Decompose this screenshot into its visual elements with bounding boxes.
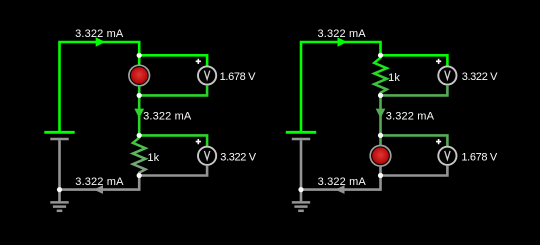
wire voltmeter M4 bottom back to node I (0V net) (381, 165, 448, 175)
wire node I to ground rail (0V net) (301, 176, 381, 190)
node B (LED cathode junction) (137, 93, 142, 98)
resistor R1 (133, 135, 146, 175)
wire from source + up and across top to resistor (5V net) (301, 42, 381, 131)
wire voltmeter M2 bottom back to node D (0V net) (139, 165, 207, 175)
plus sign M2 (196, 139, 201, 144)
ground G1 (50, 190, 68, 211)
node F (resistor top junction) (378, 53, 383, 58)
wire from source + up and across top to LED (5V net) (60, 42, 140, 131)
wire voltmeter M3 bottom back to node G (1.678V net) (381, 85, 448, 95)
wire voltmeter M1 bottom back to node B (3.322V net) (139, 85, 207, 95)
node I (LED cathode junction) (378, 173, 383, 178)
op: voltmeter M2 (198, 147, 216, 165)
svg-text:3.322 mA: 3.322 mA (318, 28, 367, 40)
LED D1 body (131, 67, 148, 84)
wire node F to voltmeter M3 top (5V net) (381, 55, 448, 66)
svg-text:1.678 V: 1.678 V (220, 71, 256, 83)
LED D2 body (372, 147, 389, 164)
wire node D to ground rail (0V net) (60, 176, 140, 190)
node D (resistor bottom junction) (137, 173, 142, 178)
plus sign M1 (196, 59, 201, 64)
wire source minus to node J (300, 140, 303, 189)
wire node G to LED anode (1.678V net) (379, 95, 382, 135)
LED D1 ring (129, 65, 150, 86)
wire node H to voltmeter M4 top (1.678V net) (381, 135, 448, 146)
svg-text:3.322 mA: 3.322 mA (75, 176, 124, 188)
current arrow on top wire (96, 37, 106, 46)
current arrow bottom wire (94, 185, 104, 194)
voltage source V2 minus plate (292, 138, 310, 140)
LED D2 ring (370, 146, 391, 167)
node C (resistor top junction) (137, 133, 142, 138)
svg-text:1k: 1k (147, 152, 159, 164)
op: voltmeter M1 (198, 66, 216, 84)
svg-text:1k: 1k (388, 72, 400, 84)
wire node B to resistor R1 top (3.322V net) (138, 95, 141, 135)
current arrow bottom wire (335, 185, 345, 194)
ground G2 (292, 190, 310, 211)
svg-text:3.322 V: 3.322 V (462, 71, 498, 83)
LED D2 bottom lead (0V net) (379, 166, 382, 175)
wire source minus to node E (58, 140, 61, 189)
op: voltmeter M4 (438, 147, 456, 165)
node E (source minus junction) (57, 187, 62, 192)
resistor R2 (374, 55, 387, 95)
node G (resistor bottom junction) (378, 93, 383, 98)
wire node C to voltmeter M2 top (3.322V net) (139, 135, 207, 146)
LED D1 bottom lead (3.322V net) (138, 86, 141, 95)
svg-text:3.322 mA: 3.322 mA (75, 28, 124, 40)
current arrow mid wire (376, 109, 386, 119)
svg-text:3.322 V: 3.322 V (220, 152, 256, 164)
LED D2 top lead (1.678V net) (379, 135, 382, 145)
voltage source V2 plus plate (286, 131, 316, 134)
plus sign M3 (436, 59, 441, 64)
svg-text:1.678 V: 1.678 V (461, 152, 497, 164)
voltage source V1 minus plate (50, 138, 68, 140)
plus sign M4 (436, 139, 441, 144)
svg-text:3.322 mA: 3.322 mA (318, 176, 367, 188)
op: voltmeter M3 (438, 66, 456, 84)
wire node A to voltmeter M1 top (5V net) (139, 55, 207, 66)
LED D1 top lead (138, 55, 141, 65)
node A (LED anode junction) (137, 53, 142, 58)
current arrow mid wire (134, 109, 144, 119)
svg-text:3.322 mA: 3.322 mA (386, 111, 435, 123)
node H (LED anode junction) (378, 133, 383, 138)
svg-text:3.322 mA: 3.322 mA (143, 111, 192, 123)
node J (source minus junction) (298, 187, 303, 192)
current arrow on top wire (338, 37, 348, 46)
voltage source V1 plus plate (44, 131, 74, 134)
